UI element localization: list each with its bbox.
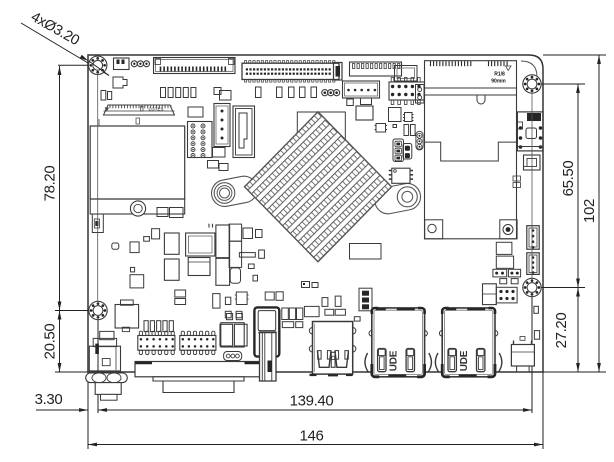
header J6 2x6 <box>138 336 175 351</box>
caps C3 C4 <box>404 125 409 136</box>
leader line 4xO3.20 <box>21 23 109 76</box>
heatsink left screw ring <box>214 183 235 204</box>
svg-text:R1/8: R1/8 <box>494 72 505 78</box>
cap row by audio <box>144 321 148 332</box>
connector CN3 FFC comb top <box>350 62 402 76</box>
inductor L4 <box>188 258 210 276</box>
switch SW1 left edge <box>92 214 103 233</box>
component under bottom-right of heatsink <box>350 244 382 260</box>
heatsink right screw tab <box>373 181 423 216</box>
marker <box>141 107 144 112</box>
squares <box>227 314 233 320</box>
HDMI port P2 <box>442 308 495 377</box>
dimension line 65.50 <box>577 84 579 372</box>
USB vertical CN8 <box>254 307 279 356</box>
svg-text:LOTES: LOTES <box>148 107 163 112</box>
USB dual port CN9 <box>313 322 353 375</box>
svg-text:78.20: 78.20 <box>42 166 59 202</box>
standoff left <box>425 220 443 239</box>
dimension line 78.20 <box>59 66 61 372</box>
extension line from H3 to H4 <box>531 93 533 279</box>
standoff right <box>500 220 517 239</box>
mounting hole H3 top-right <box>523 75 541 93</box>
connector CN15 4pin <box>527 253 539 275</box>
header J3 2x6 <box>188 122 213 158</box>
dimension 27.20 <box>576 288 580 297</box>
mosfet Q2a <box>229 224 242 241</box>
part R11 <box>393 125 397 128</box>
jumper JP4 1x2 <box>403 144 412 160</box>
mounting hole H1 top-left <box>89 56 107 74</box>
tiny striped parts <box>513 176 521 181</box>
capacitor pair C1 <box>101 91 106 101</box>
IC U10 <box>236 292 247 305</box>
connector CN1 LVDS top <box>154 58 236 74</box>
VGA DSUB shell below board <box>153 377 244 393</box>
part <box>213 294 220 309</box>
SIM holder CN12 right edge <box>517 112 543 151</box>
connector CN13 right edge <box>524 155 541 170</box>
dimension extension lines left <box>58 64 97 66</box>
cap C5 <box>230 268 240 283</box>
IC U8 with pins <box>376 124 386 133</box>
parts <box>304 306 319 316</box>
fuse F1 <box>243 228 253 239</box>
half-card step edge <box>425 142 517 161</box>
svg-text:UDE: UDE <box>459 350 470 371</box>
leader line across hole <box>90 62 110 76</box>
PCB board outline <box>88 55 543 372</box>
HDMI port P1 <box>372 308 425 377</box>
extension line from H1 down <box>97 75 99 302</box>
USB middle prong <box>331 352 335 367</box>
svg-text:20.50: 20.50 <box>42 324 59 360</box>
IC U9 with pins <box>392 168 410 183</box>
header J2 2x5 <box>391 78 394 83</box>
jumper JP1 three circles <box>131 61 137 67</box>
connector J1 small 2pin top-left <box>114 58 130 70</box>
DC power jack J5 <box>100 331 114 339</box>
inner corner keep-out arc top-right <box>521 61 537 77</box>
mounting hole H4 bottom-right <box>523 278 541 296</box>
square <box>130 275 144 288</box>
heatsink right screw ring <box>397 187 417 207</box>
jumper JP2 three circles <box>322 90 328 96</box>
jumpers 2pin pair <box>493 269 507 277</box>
inductor L1 <box>164 233 179 254</box>
small part <box>259 250 265 258</box>
circles column <box>416 131 423 150</box>
latch circle <box>130 201 145 216</box>
resistor row R1-R5 <box>161 88 166 98</box>
svg-text:UDE: UDE <box>389 350 400 371</box>
tiny right edge parts <box>534 306 539 313</box>
small part <box>248 264 254 269</box>
tiny jumpers <box>302 282 310 288</box>
capacitor C2 <box>188 107 203 117</box>
dimension extension lines bottom <box>87 372 89 449</box>
svg-text:3.30: 3.30 <box>35 391 63 408</box>
caps <box>220 324 233 346</box>
svg-text:139.40: 139.40 <box>290 393 334 410</box>
heatsink left screw tab <box>209 174 259 209</box>
IC U7 with pins <box>405 113 413 122</box>
svg-text:146: 146 <box>300 428 324 445</box>
tabs <box>157 208 168 217</box>
part <box>112 243 119 249</box>
heatsink HS1 body <box>245 112 392 262</box>
header J10 2x3 <box>496 287 517 303</box>
part <box>175 290 186 297</box>
part <box>225 297 230 304</box>
mosfet Q2b <box>229 241 242 267</box>
module M1 big box <box>90 126 185 199</box>
DC jack barrel <box>95 383 121 395</box>
part <box>152 229 160 239</box>
small parts under header <box>213 148 226 158</box>
USB contacts <box>317 351 331 368</box>
connector CN10 bottom right <box>511 345 534 367</box>
crystal X1 <box>356 106 373 120</box>
dimension 20.50 <box>58 311 62 320</box>
connector CN11 2pin left of mPCIe <box>416 85 425 104</box>
latch notch <box>477 95 485 104</box>
mini PCIe card outline MP1 <box>425 61 517 239</box>
gold finger ticks <box>430 61 432 66</box>
VGA connector J8 body <box>135 362 262 377</box>
box B1 <box>221 323 244 347</box>
small part U3 <box>220 91 232 101</box>
svg-text:65.50: 65.50 <box>560 161 577 197</box>
IC U6 <box>389 108 402 122</box>
connector CN4 white 5pin <box>343 81 380 98</box>
CPU square under heatsink <box>297 112 345 163</box>
resistor R12 <box>239 253 255 258</box>
tiny squares <box>500 279 507 284</box>
part U5 <box>361 98 372 105</box>
parts <box>265 292 274 300</box>
mPCIe connector bar <box>425 87 517 89</box>
dimension line 102 <box>598 55 600 372</box>
dimension line 146 <box>88 444 543 446</box>
dimension line 139.40 <box>98 409 532 411</box>
jumper JP5 1x3 <box>224 352 242 361</box>
connector CN14 4pin <box>527 226 539 250</box>
mosfet Q1 tall <box>216 225 230 285</box>
connector CN7 SATA vertical <box>233 106 255 158</box>
connector CN6 4pin vertical <box>214 104 230 147</box>
header J7 2x6 <box>180 336 216 351</box>
module M1 bottom strip <box>90 199 185 214</box>
audio jack J4 <box>121 300 134 305</box>
dimension 3.30 <box>36 409 88 411</box>
plug P1 L-shape <box>113 77 127 88</box>
dimension extension lines right <box>541 83 585 85</box>
inductor L3 <box>164 259 179 280</box>
connector CN5 LOTES bar <box>104 105 175 115</box>
tiny part <box>520 337 525 341</box>
parts right of USB vertical <box>282 308 289 320</box>
CN2 right bracket <box>334 63 343 81</box>
svg-text:102: 102 <box>581 199 598 223</box>
jumper JP3 1x3 <box>393 139 404 162</box>
small part U2 <box>214 88 221 95</box>
caps C6 C7 <box>144 237 150 242</box>
connector CN2 eDP top <box>242 63 339 79</box>
squares near standoff <box>496 242 512 254</box>
part U4 <box>347 99 354 106</box>
mounting hole H2 bottom-left <box>89 301 107 319</box>
resistor row R6-R10 <box>256 87 262 98</box>
squares pair <box>225 311 231 318</box>
part two-cell box <box>483 284 497 305</box>
svg-text:90mm: 90mm <box>491 79 506 85</box>
inductor L2 <box>186 233 215 256</box>
DC jack flange below board <box>86 373 128 383</box>
svg-text:27.20: 27.20 <box>553 313 570 349</box>
header J9 1x3 vertical <box>359 288 372 311</box>
